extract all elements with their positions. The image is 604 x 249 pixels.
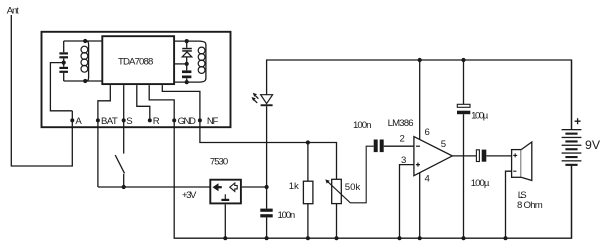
svg-text:A: A: [75, 116, 82, 127]
svg-text:LM386: LM386: [388, 118, 414, 129]
svg-text:7530: 7530: [210, 157, 228, 168]
svg-text:Ant: Ant: [7, 5, 19, 16]
svg-text:2: 2: [400, 134, 405, 145]
svg-text:R: R: [153, 116, 160, 127]
svg-text:100µ: 100µ: [471, 110, 489, 121]
svg-text:S: S: [126, 116, 132, 127]
svg-text:1k: 1k: [289, 181, 299, 192]
svg-text:4: 4: [425, 174, 431, 185]
svg-text:NF: NF: [207, 116, 219, 127]
svg-text:+3V: +3V: [182, 190, 197, 201]
svg-text:8 Ohm: 8 Ohm: [517, 200, 543, 211]
svg-text:GND: GND: [178, 116, 196, 127]
svg-text:100n: 100n: [353, 120, 372, 131]
svg-text:5: 5: [441, 139, 446, 150]
svg-text:6: 6: [425, 127, 430, 138]
svg-text:TDA7088: TDA7088: [118, 56, 153, 67]
svg-text:100n: 100n: [278, 210, 296, 221]
svg-text:50k: 50k: [345, 182, 361, 193]
svg-text:3: 3: [401, 155, 406, 166]
svg-text:100µ: 100µ: [471, 178, 490, 189]
svg-text:9V: 9V: [585, 138, 601, 152]
svg-text:BAT: BAT: [101, 116, 118, 127]
